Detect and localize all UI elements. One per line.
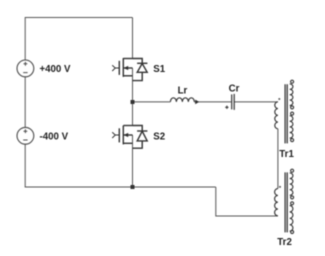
transformer Tr1 — [275, 80, 294, 143]
mosfet S2 — [112, 126, 132, 145]
wire S1 drain from top rail — [132, 18, 134, 59]
wire bottom rail — [25, 186, 216, 188]
Tr2 secondary winding 2 — [291, 202, 294, 205]
wire top rail — [25, 17, 132, 19]
wire left rail middle (V1 to V2) — [24, 77, 26, 127]
junction dot bottom rail — [131, 185, 135, 189]
body diode of S2 — [133, 126, 148, 149]
svg-text:S1: S1 — [153, 64, 165, 75]
Tr1 primary winding — [275, 102, 278, 129]
voltage source V2 — [17, 127, 34, 144]
svg-text:S2: S2 — [153, 131, 165, 142]
svg-text:Cr: Cr — [229, 83, 240, 94]
transformer Tr2 — [275, 169, 294, 233]
wire S1 source to node A — [132, 68, 134, 102]
capacitor Cr — [225, 94, 234, 110]
wire node A to S2 drain — [132, 102, 134, 126]
Tr2 core — [285, 172, 287, 232]
Tr1 secondary winding 1 — [291, 80, 294, 83]
svg-text:+400 V: +400 V — [40, 64, 72, 75]
wire Lr to Cr — [194, 101, 231, 103]
wire S2 source to bottom rail — [132, 135, 134, 187]
wire node A to Lr — [133, 101, 171, 103]
current arrow after Lr — [195, 100, 199, 105]
svg-text:Tr2: Tr2 — [277, 237, 292, 248]
voltage source V1 — [17, 60, 34, 77]
wire Cr to Tr1 primary — [234, 101, 278, 103]
body diode of S1 — [133, 59, 148, 81]
Tr2 secondary winding 1 — [291, 169, 294, 172]
wire left rail upper (top to V1) — [24, 17, 26, 60]
inductor Lr — [170, 98, 194, 102]
svg-text:-400 V: -400 V — [40, 131, 69, 142]
node A junction dot (midpoint) — [131, 100, 135, 104]
Tr1 polarity dot primary — [278, 98, 280, 100]
Tr1 secondary winding 2 — [291, 112, 294, 115]
svg-text:Lr: Lr — [178, 86, 188, 97]
wire bottom-right riser — [216, 187, 278, 216]
Tr2 primary winding — [275, 189, 278, 216]
wire Tr1 primary bottom to Tr2 primary top — [277, 129, 279, 189]
mosfet S1 — [112, 58, 132, 77]
wire left rail lower (V2 to bottom rail) — [24, 144, 26, 187]
Tr1 core — [285, 84, 287, 143]
svg-text:Tr1: Tr1 — [279, 149, 294, 160]
Tr2 polarity dot primary — [279, 186, 281, 188]
